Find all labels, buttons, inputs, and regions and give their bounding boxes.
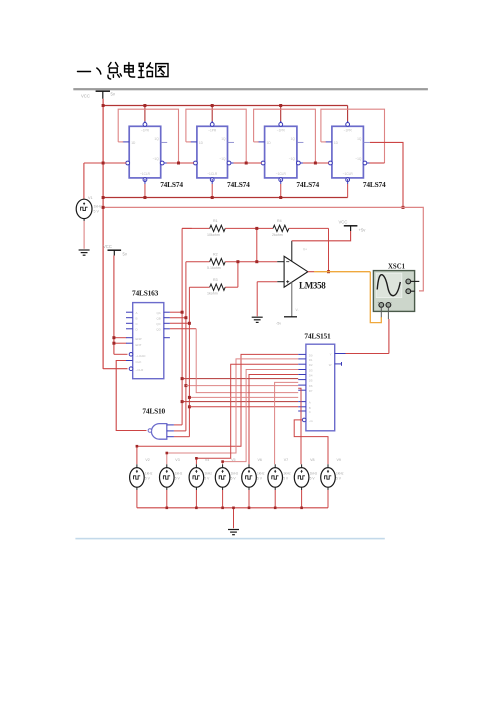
svg-text:V-: V- — [296, 308, 299, 312]
svg-text:Y: Y — [330, 353, 332, 357]
svg-text:5 V: 5 V — [145, 477, 151, 481]
svg-text:5 V: 5 V — [175, 477, 181, 481]
wire source V4 to mux D2 — [195, 364, 298, 464]
source V2 clock — [130, 458, 153, 508]
svg-text:5 V: 5 V — [204, 477, 210, 481]
svg-text:74LS74: 74LS74 — [363, 180, 386, 189]
svg-text:2kohm: 2kohm — [272, 233, 283, 237]
resistor R2 — [186, 252, 277, 270]
wire QD net — [170, 329, 298, 393]
svg-text:CLK: CLK — [136, 360, 142, 364]
svg-text:V9: V9 — [337, 458, 341, 462]
svg-text:1kHz: 1kHz — [204, 472, 212, 476]
power VCC3 symbol — [339, 220, 367, 233]
svg-text:QA: QA — [156, 311, 160, 315]
svg-text:XSC1: XSC1 — [388, 264, 406, 271]
wire Q4 output to section border — [370, 142, 405, 209]
svg-text:V6: V6 — [258, 458, 262, 462]
svg-text:A: A — [136, 311, 138, 315]
svg-text:QB: QB — [156, 317, 160, 321]
wire op-amp output to scope channel A — [308, 272, 382, 323]
wire feedback bracket U4 — [321, 109, 385, 163]
wire select B2 net — [188, 396, 298, 399]
svg-text:1Q: 1Q — [357, 137, 362, 141]
svg-text:D4: D4 — [309, 374, 313, 378]
wire source V8 to mux D6 riser — [298, 388, 301, 464]
svg-text:74LS151: 74LS151 — [304, 331, 331, 340]
wire long border net to scope B — [102, 206, 424, 291]
wire feedback bracket U3 — [254, 109, 316, 163]
divider pale blue line — [75, 538, 384, 540]
svg-text:74LS74: 74LS74 — [296, 180, 319, 189]
source V6 clock — [242, 458, 265, 508]
svg-text:V1: V1 — [88, 196, 93, 200]
wire clear bottom rail — [102, 184, 348, 199]
svg-text:74LS74: 74LS74 — [227, 180, 250, 189]
flip-flop U1 74LS74 — [122, 121, 168, 184]
svg-text:C: C — [309, 410, 311, 414]
svg-text:1kHz: 1kHz — [94, 205, 102, 209]
svg-text:~1PR: ~1PR — [208, 129, 217, 133]
wire QC net — [170, 287, 298, 437]
flip-flop U2 74LS74 — [190, 121, 235, 184]
svg-text:1kHz: 1kHz — [283, 472, 291, 476]
svg-text:D3: D3 — [309, 369, 313, 373]
svg-text:~CLR: ~CLR — [136, 368, 145, 372]
resistor R1 — [182, 219, 257, 237]
svg-text:VCC: VCC — [103, 244, 112, 249]
svg-text:74LS10: 74LS10 — [142, 407, 165, 416]
source V7 clock — [268, 458, 291, 508]
svg-text:5 V: 5 V — [283, 477, 289, 481]
svg-text:~1Q: ~1Q — [153, 157, 160, 161]
svg-text:1kHz: 1kHz — [336, 472, 344, 476]
svg-text:1Q: 1Q — [154, 137, 159, 141]
svg-text:1D: 1D — [267, 141, 272, 145]
wire top gray bus line — [73, 88, 428, 90]
svg-text:VCC: VCC — [339, 220, 348, 225]
svg-text:R4: R4 — [277, 219, 282, 223]
op-amp U6 LM358 — [276, 241, 308, 326]
wire source V6 to mux D4 — [249, 375, 298, 465]
wire 74LS10 output to 163 clock — [116, 361, 146, 431]
ground at op-amp +input — [252, 316, 263, 318]
svg-text:~1CLR: ~1CLR — [140, 172, 151, 176]
wire feedback bracket U1 — [118, 109, 178, 163]
svg-text:~1CLR: ~1CLR — [276, 172, 287, 176]
svg-text:R1: R1 — [213, 219, 218, 223]
source V1 clock — [76, 163, 102, 249]
wire source V2 to mux D0 — [136, 354, 299, 464]
wire source V5 to mux D3 — [221, 370, 298, 465]
svg-text:V3: V3 — [175, 458, 179, 462]
svg-text:VCC: VCC — [81, 94, 90, 99]
svg-text:1kHz: 1kHz — [175, 472, 183, 476]
svg-text:5 V: 5 V — [231, 477, 237, 481]
resistor R3 — [189, 260, 239, 295]
wire QB net — [170, 262, 298, 431]
svg-text:D5: D5 — [309, 379, 313, 383]
svg-text:74LS74: 74LS74 — [160, 180, 183, 189]
svg-text:D0: D0 — [309, 353, 313, 357]
wire preset top rail — [102, 104, 348, 123]
svg-text:~1Q: ~1Q — [219, 157, 226, 161]
svg-text:1D: 1D — [131, 141, 136, 145]
svg-text:5.1kohm: 5.1kohm — [207, 266, 221, 270]
svg-text:1kHz: 1kHz — [231, 472, 239, 476]
svg-text:1Q: 1Q — [291, 137, 296, 141]
svg-text:ENT: ENT — [136, 343, 142, 347]
wire +input to ground — [257, 282, 277, 317]
power VCC2 symbol — [103, 244, 128, 257]
svg-text:5 V: 5 V — [257, 477, 263, 481]
svg-text:5 V: 5 V — [336, 477, 342, 481]
svg-text:74LS163: 74LS163 — [132, 288, 159, 297]
flip-flop U4 74LS74 — [325, 121, 371, 184]
source V8 clock — [294, 458, 317, 508]
power VCC1 symbol — [81, 91, 116, 99]
svg-text:5 V: 5 V — [94, 210, 100, 214]
svg-text:1kHz: 1kHz — [145, 472, 153, 476]
svg-text:~1Q: ~1Q — [355, 157, 362, 161]
wire VCC3 to op-amp V+ — [292, 231, 351, 241]
svg-text:D1: D1 — [309, 358, 313, 362]
svg-text:A: A — [309, 401, 311, 405]
wire VCC vertical rail — [102, 99, 104, 369]
wire source V7 to mux D5 riser — [275, 382, 299, 464]
svg-text:V2: V2 — [145, 458, 149, 462]
wire feedback bracket U2 — [186, 109, 246, 163]
wire source V3 to mux D1 — [166, 359, 299, 464]
svg-text:1kHz: 1kHz — [310, 472, 318, 476]
svg-text:D7: D7 — [309, 389, 313, 393]
wire source V9 to mux strobe — [294, 420, 328, 464]
svg-text:R3: R3 — [213, 278, 218, 282]
wire VCC2 to 163 enable pins — [112, 256, 127, 355]
svg-text:V+: V+ — [303, 248, 307, 252]
svg-text:1kohm: 1kohm — [207, 292, 218, 296]
gate U8 74LS10 (mirrored NAND) — [148, 424, 174, 440]
svg-text:LM358: LM358 — [299, 280, 326, 290]
svg-text:10kohm: 10kohm — [207, 233, 220, 237]
svg-text:~1CLR: ~1CLR — [343, 172, 354, 176]
svg-text:5 V: 5 V — [310, 477, 316, 481]
wire scope B to 151 Y output — [346, 319, 389, 354]
svg-text:1D: 1D — [199, 141, 204, 145]
svg-text:ENP: ENP — [136, 337, 142, 341]
svg-text:5v: 5v — [111, 92, 116, 97]
ground bottom — [228, 529, 239, 531]
source V4 clock — [189, 458, 212, 508]
svg-text:D6: D6 — [309, 384, 313, 388]
svg-text:1Q: 1Q — [221, 137, 226, 141]
svg-text:V4: V4 — [205, 458, 209, 462]
wire clock chain — [84, 162, 385, 165]
svg-text:V7: V7 — [284, 458, 288, 462]
svg-text:W: W — [329, 363, 332, 367]
svg-text:1kHz: 1kHz — [257, 472, 265, 476]
multiplexer U7 74LS151 — [298, 344, 345, 431]
title text 一、总电路图 — [78, 63, 169, 80]
svg-text:B: B — [136, 317, 138, 321]
oscilloscope XSC1 — [373, 271, 419, 319]
svg-text:~1PR: ~1PR — [141, 129, 150, 133]
wire bottom common rail — [137, 507, 328, 529]
svg-text:V5: V5 — [231, 458, 235, 462]
source V3 clock — [160, 458, 183, 508]
source V9 clock — [321, 458, 344, 508]
svg-text:+5v: +5v — [359, 228, 367, 233]
wire QA net — [170, 228, 298, 425]
svg-text:~LOAD: ~LOAD — [136, 354, 147, 358]
wire VCC rail to 163 load pin — [103, 368, 127, 370]
resistor R4 feedback — [255, 219, 330, 273]
svg-text:D2: D2 — [309, 363, 313, 367]
svg-text:~1Q: ~1Q — [289, 157, 296, 161]
svg-text:V8: V8 — [310, 458, 314, 462]
svg-text:R2: R2 — [213, 252, 218, 256]
svg-text:~1PR: ~1PR — [344, 129, 353, 133]
svg-text:1D: 1D — [334, 141, 339, 145]
svg-text:5v: 5v — [123, 252, 128, 257]
source V5 clock — [215, 458, 238, 508]
svg-text:-: - — [391, 300, 392, 304]
counter U5 74LS163 — [126, 303, 170, 379]
svg-text:~1CLR: ~1CLR — [207, 172, 218, 176]
flip-flop U3 74LS74 — [258, 121, 304, 184]
svg-text:-5v: -5v — [276, 322, 281, 326]
ground below V1 — [79, 249, 90, 251]
svg-text:~1PR: ~1PR — [277, 129, 286, 133]
